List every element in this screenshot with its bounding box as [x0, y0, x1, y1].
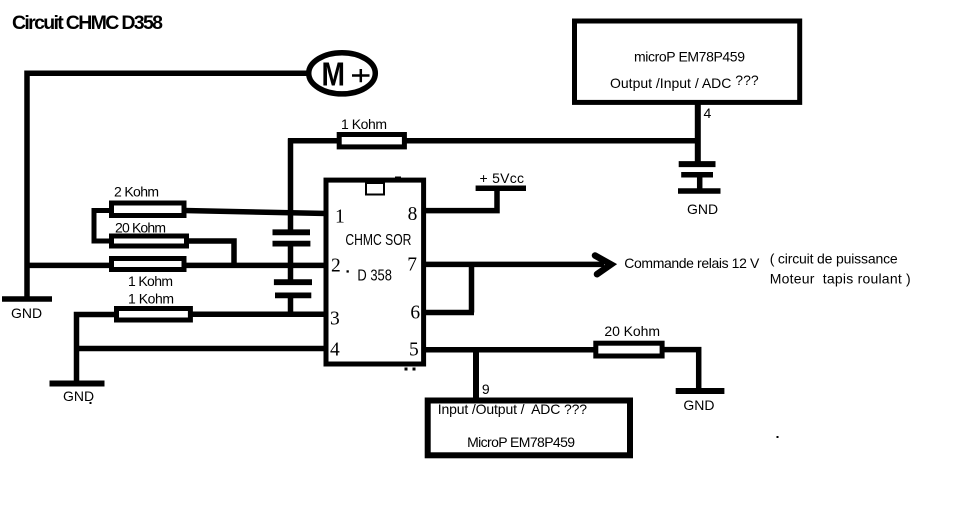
- wire C2 to pin3 row: [288, 297, 294, 314]
- svg-text:Input /Output / ADC ???: Input /Output / ADC ???: [438, 401, 588, 417]
- node pin7 to pin6 vertical: [469, 264, 475, 312]
- resistor R3 1 Kohm: [112, 259, 185, 290]
- ground GND4: [678, 191, 721, 217]
- wire R1 right to IC pin 1: [184, 211, 327, 214]
- resistor R2 20 Kohm: [112, 220, 187, 247]
- wire R4 right to IC pin 3: [190, 311, 327, 317]
- svg-text:Circuit CHMC D358: Circuit CHMC D358: [12, 12, 163, 34]
- svg-text:1 Kohm: 1 Kohm: [128, 291, 174, 307]
- op-amp U1 D358 package: [326, 177, 424, 365]
- svg-text:GND: GND: [63, 388, 94, 404]
- svg-text:+ 5Vcc: + 5Vcc: [480, 170, 525, 186]
- svg-text:microP EM78P459: microP EM78P459: [634, 49, 745, 65]
- svg-text:1 Kohm: 1 Kohm: [341, 116, 387, 132]
- microcontroller U3 box: [428, 401, 630, 456]
- wire pin 6: [424, 310, 474, 316]
- stray dot: [90, 402, 92, 404]
- wire motor to left vertical and down to GND1: [27, 73, 307, 296]
- power +5Vcc: [476, 170, 526, 188]
- svg-text:3: 3: [330, 309, 340, 330]
- motor M: [309, 53, 376, 94]
- wire pin 4 row: [77, 346, 328, 352]
- svg-text:6: 6: [410, 303, 420, 324]
- ground GND1: [2, 299, 52, 321]
- wire junction down to U3: [473, 350, 479, 399]
- resistor R4 1 Kohm: [117, 291, 191, 321]
- svg-text:2 Kohm: 2 Kohm: [114, 184, 159, 200]
- wire R3 right to IC pin 2: [184, 263, 327, 269]
- ground GND2: [50, 384, 105, 405]
- stray dot: [777, 436, 779, 438]
- svg-text:Commande relais 12 V: Commande relais 12 V: [624, 255, 760, 271]
- svg-text:1 Kohm: 1 Kohm: [128, 273, 173, 289]
- svg-text:GND: GND: [687, 201, 718, 217]
- wire C3 to GND4: [697, 176, 703, 189]
- svg-text:9: 9: [482, 381, 490, 397]
- wire pin 8 to +5Vcc: [424, 189, 497, 211]
- svg-text:4: 4: [330, 340, 340, 361]
- svg-text:20 Kohm: 20 Kohm: [115, 220, 166, 236]
- capacitor C3: [679, 164, 716, 175]
- svg-text:1: 1: [335, 207, 345, 228]
- artifact dot: [347, 270, 349, 272]
- svg-text:GND: GND: [683, 397, 714, 413]
- resistor R6 20 Kohm: [596, 323, 662, 356]
- svg-text:4: 4: [704, 105, 712, 121]
- resistor R1 2 Kohm: [112, 184, 185, 216]
- svg-text:5: 5: [409, 340, 419, 361]
- svg-text:7: 7: [407, 255, 417, 276]
- capacitor C2: [274, 282, 312, 295]
- wire R6 right down to GND3: [662, 350, 699, 388]
- arrowhead: [595, 256, 611, 275]
- resistor R5 1 Kohm top: [339, 116, 404, 147]
- wire U2 down to C3: [695, 103, 701, 163]
- svg-text:D 358: D 358: [357, 268, 392, 285]
- microcontroller U2 box: [575, 21, 800, 102]
- wire R5 left stub: [288, 138, 340, 144]
- wire R1 left bracket to R2: [94, 211, 111, 242]
- svg-text:MicroP EM78P459: MicroP EM78P459: [467, 434, 575, 450]
- svg-text:M: M: [322, 55, 346, 92]
- capacitor C1: [273, 232, 311, 243]
- svg-text:2: 2: [331, 256, 341, 277]
- svg-text:8: 8: [408, 204, 418, 225]
- wire pin 5 row: [424, 347, 596, 353]
- wire R2 right down to node row2: [186, 241, 234, 265]
- svg-text:CHMC SOR: CHMC SOR: [345, 232, 411, 249]
- svg-text:( circuit de puissance: ( circuit de puissance: [770, 251, 898, 267]
- svg-text:20 Kohm: 20 Kohm: [604, 323, 660, 339]
- svg-text:GND: GND: [11, 305, 42, 321]
- artifact dots under IC: [405, 368, 408, 371]
- svg-text:Moteur tapis roulant ): Moteur tapis roulant ): [770, 271, 911, 287]
- wire R5 right to node 4 junction: [404, 138, 698, 144]
- wire capacitor column top: [288, 139, 294, 231]
- ground GND3: [676, 391, 725, 413]
- wire R4 left stub down to GND2: [77, 315, 117, 385]
- wire pin 7 arrow Commande relais: [424, 262, 604, 268]
- wire C1 to C2: [288, 246, 294, 280]
- wire GND1 column to R3 left: [27, 263, 111, 269]
